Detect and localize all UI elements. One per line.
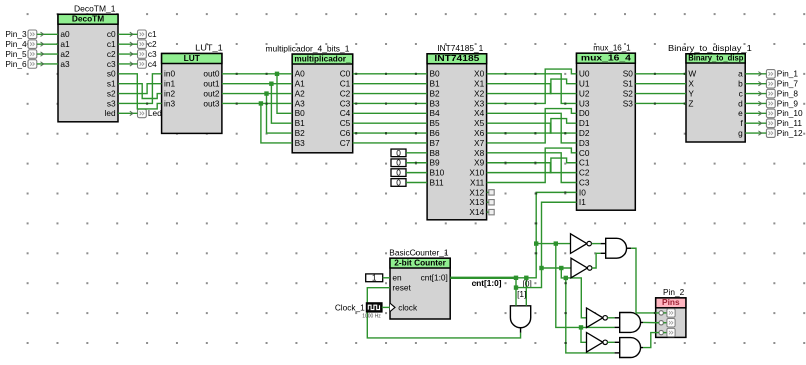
svg-text:c1: c1 — [148, 29, 157, 39]
svg-text:B10: B10 — [430, 168, 445, 178]
unconnected output X13 — [487, 200, 495, 205]
svg-text:clock: clock — [398, 302, 418, 312]
svg-text:0: 0 — [396, 158, 401, 168]
svg-text:Led: Led — [148, 108, 162, 118]
svg-text:e: e — [738, 108, 743, 118]
svg-text:A0: A0 — [295, 69, 306, 79]
constant 0 (B11) — [391, 177, 406, 187]
svg-text:X: X — [688, 79, 694, 89]
wire mux_16_1.S3 to Binary_to_display_1.Z — [635, 103, 686, 105]
wire constant 0 to INT74185_1.B9 — [406, 162, 427, 164]
AND gate G5 (reset) — [510, 306, 530, 333]
output pin Pin_7 — [766, 79, 798, 89]
wire splitter bit1 to mux I1 and gates — [516, 202, 615, 353]
output pin c4 — [138, 59, 158, 69]
svg-text:X7: X7 — [474, 138, 485, 148]
svg-text:B2: B2 — [430, 88, 441, 98]
subcircuit INT74185_1 — [427, 43, 487, 220]
svg-text:X10: X10 — [469, 168, 484, 178]
wire LUT_1.out0 to multiplicador.A0 and B0 — [222, 73, 292, 114]
svg-text:0: 0 — [396, 148, 401, 158]
constant 0 (B10) — [391, 168, 406, 178]
svg-text:B7: B7 — [430, 138, 441, 148]
NOT gate G2 — [571, 258, 592, 278]
svg-text:B0: B0 — [295, 108, 306, 118]
svg-text:Pin_12: Pin_12 — [777, 128, 803, 138]
wire Pin_5 to DecoTM_1.a2 — [37, 52, 58, 56]
wire G6 out to Pin_2.0 — [631, 248, 659, 314]
svg-text:cnt[1:0]: cnt[1:0] — [421, 273, 448, 283]
svg-text:multiplicador_4_bits_1: multiplicador_4_bits_1 — [266, 43, 350, 53]
wire G5 out to BasicCounter_1.reset — [367, 288, 520, 338]
svg-text:INT74185: INT74185 — [434, 53, 479, 63]
junction bit1 NOT2 feed — [539, 266, 543, 270]
clock Clock_1 — [335, 302, 382, 319]
svg-text:C1: C1 — [340, 79, 351, 89]
svg-text:C7: C7 — [340, 138, 351, 148]
svg-text:B11: B11 — [430, 177, 445, 187]
wire Pin_6 to DecoTM_1.a3 — [37, 62, 58, 66]
wire INT74185_1.X3 to mux_16_1.U0 — [487, 69, 577, 104]
svg-text:C2: C2 — [340, 88, 351, 98]
svg-text:c3: c3 — [107, 59, 116, 69]
unconnected output X12 — [487, 190, 495, 195]
wire DecoTM_1.c3 to c4 — [118, 62, 138, 66]
svg-text:C6: C6 — [340, 128, 351, 138]
wire Binary_to_display_1.c to Pin_8 — [745, 91, 766, 95]
wire splitter bit0 to mux I0 and gates — [516, 191, 615, 342]
wire Binary_to_display_1.f to Pin_11 — [745, 121, 766, 125]
wire DecoTM_1.c2 to c3 — [118, 52, 138, 56]
svg-text:B8: B8 — [430, 148, 441, 158]
svg-text:X13: X13 — [469, 197, 484, 207]
input pin Pin_3 — [5, 29, 36, 39]
svg-text:out2: out2 — [203, 88, 220, 98]
svg-text:s0: s0 — [107, 69, 116, 79]
wire multiplicador.C7 to INT74185_1.B7 — [353, 142, 427, 144]
subcircuit mux_16_1 — [577, 42, 636, 210]
svg-text:g: g — [738, 128, 743, 138]
svg-text:Z: Z — [688, 98, 693, 108]
svg-text:c0: c0 — [107, 29, 116, 39]
wire Pin_4 to DecoTM_1.a1 — [37, 42, 58, 46]
svg-text:multiplicador_: multiplicador_ — [294, 53, 351, 63]
junction out2 branch — [264, 91, 268, 95]
svg-text:mux_16_4: mux_16_4 — [581, 53, 631, 63]
svg-text:c1: c1 — [107, 39, 116, 49]
svg-text:out1: out1 — [203, 79, 220, 89]
wire multiplicador.C4 to INT74185_1.B4 — [353, 112, 427, 114]
svg-text:A1: A1 — [295, 79, 306, 89]
output pin c3 — [138, 49, 158, 59]
svg-text:X5: X5 — [474, 118, 485, 128]
wire mux_16_1.S0 to Binary_to_display_1.W — [635, 73, 686, 75]
svg-text:s1: s1 — [107, 79, 116, 89]
output pin Pin_8 — [766, 88, 798, 98]
svg-text:A3: A3 — [295, 98, 306, 108]
svg-text:S3: S3 — [623, 98, 634, 108]
svg-text:a0: a0 — [60, 29, 70, 39]
svg-text:X0: X0 — [474, 69, 485, 79]
svg-text:B9: B9 — [430, 158, 441, 168]
unconnected output X14 — [487, 209, 495, 214]
svg-text:B3: B3 — [295, 138, 306, 148]
subcircuit multiplicador_4_bits_1 — [266, 43, 353, 152]
svg-text:c: c — [739, 88, 743, 98]
svg-text:BasicCounter_1: BasicCounter_1 — [389, 247, 449, 257]
wire Binary_to_display_1.g to Pin_12 — [745, 131, 766, 135]
svg-text:X11: X11 — [470, 177, 485, 187]
svg-text:S1: S1 — [623, 79, 634, 89]
svg-text:S0: S0 — [623, 69, 634, 79]
wire DecoTM_1.s2 to LUT_1.in1 — [118, 84, 162, 94]
wire mux_16_1.S1 to Binary_to_display_1.X — [635, 83, 686, 85]
wire INT74185_1.X9 to mux_16_1.C2 — [487, 162, 577, 173]
svg-text:B5: B5 — [430, 118, 441, 128]
input pin Pin_6 — [5, 59, 36, 69]
net label cnt[1:0] — [472, 278, 502, 288]
svg-text:U0: U0 — [579, 69, 590, 79]
svg-text:X6: X6 — [474, 128, 485, 138]
junction out3 branch — [259, 101, 263, 105]
junction bit1 AND3 drop — [564, 276, 568, 280]
svg-text:LUT_1: LUT_1 — [195, 43, 223, 53]
wire DecoTM_1.s0 to LUT_1.in3 — [118, 74, 162, 109]
svg-text:C3: C3 — [579, 177, 590, 187]
svg-text:led: led — [105, 108, 116, 118]
wire Pin_3 to DecoTM_1.a0 — [37, 32, 58, 36]
svg-text:C3: C3 — [340, 98, 351, 108]
svg-text:I1: I1 — [579, 197, 586, 207]
wire multiplicador.C3 to INT74185_1.B3 — [353, 103, 427, 105]
constant 0 (B8) — [391, 148, 406, 158]
svg-text:1: 1 — [372, 273, 377, 283]
svg-text:C4: C4 — [340, 108, 351, 118]
wire mux_16_1.S2 to Binary_to_display_1.Y — [635, 93, 686, 95]
svg-text:b: b — [738, 79, 743, 89]
svg-text:X9: X9 — [474, 158, 485, 168]
svg-text:Pin_8: Pin_8 — [777, 88, 799, 98]
AND gate G8 — [615, 338, 643, 358]
constant 0 (B9) — [391, 158, 406, 168]
svg-text:in2: in2 — [164, 88, 175, 98]
wire DecoTM_1.c1 to c2 — [118, 42, 138, 46]
wire INT74185_1.X11 to mux_16_1.C0 — [487, 148, 577, 182]
svg-text:U3: U3 — [579, 98, 590, 108]
svg-text:Pin_3: Pin_3 — [5, 29, 27, 39]
svg-text:U2: U2 — [579, 88, 590, 98]
junction bit1 split — [514, 285, 518, 289]
output pin Led — [138, 108, 163, 118]
svg-text:s3: s3 — [107, 98, 116, 108]
wire INT74185_1.X8 to mux_16_1.C3 — [487, 153, 577, 183]
svg-text:Clock_1: Clock_1 — [335, 302, 365, 312]
wire G7 out to Pin_2.1 — [643, 321, 659, 323]
wire INT74185_1.X6 to mux_16_1.D1 — [487, 119, 577, 135]
wire G8 out to Pin_2.2 — [643, 333, 659, 348]
AND gate G7 — [615, 313, 643, 333]
NOT gate G1 — [571, 234, 592, 254]
svg-text:U1: U1 — [579, 79, 590, 89]
wire DecoTM_1.led to Led — [118, 111, 138, 115]
wire G2 out to G6 in — [592, 253, 601, 268]
wire bus cnt[1:0] — [450, 277, 516, 279]
svg-text:Binary_to_display_1: Binary_to_display_1 — [668, 43, 752, 53]
svg-text:X1: X1 — [474, 79, 485, 89]
subcircuit Binary_to_display_1 — [668, 43, 752, 142]
constant 1 (en) — [366, 273, 383, 283]
svg-text:W: W — [688, 69, 696, 79]
svg-text:B2: B2 — [295, 128, 306, 138]
splitter label [0] — [523, 279, 532, 289]
wire multiplicador.C5 to INT74185_1.B5 — [353, 122, 427, 124]
svg-text:X14: X14 — [469, 207, 484, 217]
svg-text:DecoTM_1: DecoTM_1 — [74, 4, 116, 14]
svg-text:Pin_2: Pin_2 — [663, 287, 685, 297]
svg-text:C2: C2 — [579, 168, 590, 178]
svg-text:INT74185_1: INT74185_1 — [437, 43, 483, 53]
output pin Pin_10 — [766, 108, 803, 118]
wire INT74185_1.X2 to mux_16_1.U1 — [487, 79, 577, 94]
svg-text:D1: D1 — [579, 118, 590, 128]
svg-text:c4: c4 — [148, 59, 157, 69]
wire DecoTM_1.s1 to LUT_1.in2 — [118, 84, 162, 99]
svg-text:0: 0 — [396, 168, 401, 178]
output pin Pin_11 — [766, 118, 802, 128]
svg-text:a: a — [738, 69, 743, 79]
svg-text:B6: B6 — [430, 128, 441, 138]
svg-text:X12: X12 — [469, 187, 484, 197]
wire constant 0 to INT74185_1.B8 — [406, 152, 427, 154]
wire Clock_1 to BasicCounter_1.clock — [382, 306, 390, 308]
AND gate G6 — [601, 238, 632, 258]
svg-text:Pin_4: Pin_4 — [5, 39, 27, 49]
input pin Pin_5 — [5, 49, 36, 59]
junction out0 branch — [275, 72, 279, 76]
output pin c2 — [138, 39, 158, 49]
wire LUT_1.out3 to multiplicador.A3 and B3 — [222, 103, 292, 143]
svg-text:Pin_7: Pin_7 — [777, 79, 799, 89]
wire Binary_to_display_1.d to Pin_9 — [745, 101, 766, 105]
wire Binary_to_display_1.e to Pin_10 — [745, 111, 766, 115]
svg-text:S2: S2 — [623, 88, 634, 98]
svg-text:a2: a2 — [60, 49, 70, 59]
svg-text:DecoTM: DecoTM — [72, 14, 104, 24]
svg-text:B1: B1 — [430, 79, 441, 89]
svg-text:d: d — [738, 98, 743, 108]
svg-text:A2: A2 — [295, 88, 306, 98]
svg-text:a3: a3 — [60, 59, 70, 69]
wire G1 out to G6 in — [592, 243, 601, 245]
svg-text:I0: I0 — [579, 187, 586, 197]
output pin Pin_9 — [766, 98, 798, 108]
svg-text:en: en — [392, 273, 402, 283]
svg-text:LUT: LUT — [184, 53, 200, 63]
junction bit0 AND2 drop — [554, 241, 558, 245]
svg-text:X3: X3 — [474, 98, 485, 108]
svg-text:B4: B4 — [430, 108, 441, 118]
svg-text:D0: D0 — [579, 108, 590, 118]
svg-text:c3: c3 — [148, 49, 157, 59]
svg-text:B1: B1 — [295, 118, 306, 128]
wire Binary_to_display_1.b to Pin_7 — [745, 82, 766, 86]
junction out1 branch — [269, 82, 273, 86]
subcircuit LUT_1 — [162, 43, 224, 134]
input pin Pin_4 — [5, 39, 36, 49]
wire constant 1 to BasicCounter_1.en — [383, 277, 390, 279]
NOT gate G4 — [587, 333, 608, 353]
svg-text:Pins: Pins — [662, 297, 680, 307]
counter BasicCounter_1 — [389, 247, 450, 319]
wire constant 0 to INT74185_1.B11 — [406, 182, 427, 184]
svg-text:0: 0 — [396, 177, 401, 187]
svg-text:C5: C5 — [340, 118, 351, 128]
wire G4 out to G8 in — [607, 341, 614, 343]
svg-text:in3: in3 — [164, 98, 175, 108]
svg-text:C0: C0 — [340, 69, 351, 79]
svg-text:[1]: [1] — [517, 289, 526, 299]
svg-text:cnt[1:0]: cnt[1:0] — [472, 278, 502, 288]
svg-text:X2: X2 — [474, 88, 485, 98]
svg-text:Pin_5: Pin_5 — [5, 49, 27, 59]
wire INT74185_1.X0 to mux_16_1.U3 — [487, 73, 577, 105]
svg-text:B0: B0 — [430, 69, 441, 79]
svg-text:C1: C1 — [579, 158, 590, 168]
output pin Pin_1 — [766, 69, 798, 79]
output pin Pin_12 — [766, 128, 803, 138]
svg-text:B3: B3 — [430, 98, 441, 108]
svg-text:mux_16_1: mux_16_1 — [593, 42, 631, 52]
wire G3 out to G7 in — [607, 317, 614, 319]
svg-text:1000 Hz: 1000 Hz — [362, 314, 381, 320]
junction bit0 NOT1 feed — [534, 241, 538, 245]
svg-text:Pin_11: Pin_11 — [777, 118, 803, 128]
wire LUT_1.out1 to multiplicador.A1 and B1 — [222, 84, 292, 124]
svg-text:a1: a1 — [60, 39, 70, 49]
wire INT74185_1.X4 to mux_16_1.D3 — [487, 113, 577, 143]
wire INT74185_1.X10 to mux_16_1.C1 — [487, 158, 577, 173]
svg-text:X8: X8 — [474, 148, 485, 158]
wire constant 0 to INT74185_1.B10 — [406, 172, 427, 174]
svg-text:c2: c2 — [148, 39, 157, 49]
svg-text:Pin_9: Pin_9 — [777, 98, 799, 108]
wire multiplicador.C2 to INT74185_1.B2 — [353, 93, 427, 95]
svg-text:in0: in0 — [164, 69, 175, 79]
wire INT74185_1.X7 to mux_16_1.D0 — [487, 109, 577, 143]
svg-text:2-bit Counter: 2-bit Counter — [394, 257, 446, 267]
wire INT74185_1.X5 to mux_16_1.D2 — [487, 123, 577, 134]
wire multiplicador.C6 to INT74185_1.B6 — [353, 132, 427, 134]
svg-text:Pin_6: Pin_6 — [5, 59, 27, 69]
splitter label [1] — [517, 289, 526, 299]
NOT gate G3 — [587, 308, 608, 328]
svg-text:s2: s2 — [107, 88, 116, 98]
wire DecoTM_1.c0 to c1 — [118, 32, 138, 36]
junction bit0 NOT4 drop — [579, 325, 583, 329]
svg-text:Pin_10: Pin_10 — [777, 108, 803, 118]
subcircuit DecoTM_1 — [58, 4, 118, 122]
svg-text:out3: out3 — [203, 98, 220, 108]
junction bit0 tap — [524, 276, 528, 280]
wire multiplicador.C1 to INT74185_1.B1 — [353, 83, 427, 85]
svg-text:Binary_to_disp: Binary_to_disp — [688, 52, 743, 62]
svg-text:C0: C0 — [579, 148, 590, 158]
pins connector Pin_2 — [656, 287, 686, 337]
svg-text:D3: D3 — [579, 138, 590, 148]
junction bit1 tap — [514, 276, 518, 280]
svg-text:D2: D2 — [579, 128, 590, 138]
wire INT74185_1.X1 to mux_16_1.U2 — [487, 84, 577, 94]
wire Binary_to_display_1.a to Pin_1 — [745, 72, 766, 76]
junction bit1 drop — [559, 266, 563, 270]
wire LUT_1.out2 to multiplicador.A2 and B2 — [222, 94, 292, 134]
svg-text:reset: reset — [392, 283, 411, 293]
wire multiplicador.C0 to INT74185_1.B0 — [353, 73, 427, 75]
svg-text:Pin_1: Pin_1 — [777, 69, 799, 79]
output pin c1 — [138, 29, 158, 39]
svg-text:X4: X4 — [474, 108, 485, 118]
svg-text:out0: out0 — [203, 69, 220, 79]
svg-text:in1: in1 — [164, 79, 175, 89]
svg-text:c2: c2 — [107, 49, 116, 59]
svg-text:Y: Y — [688, 88, 694, 98]
wire DecoTM_1.s3 to LUT_1.in0 — [118, 74, 162, 105]
